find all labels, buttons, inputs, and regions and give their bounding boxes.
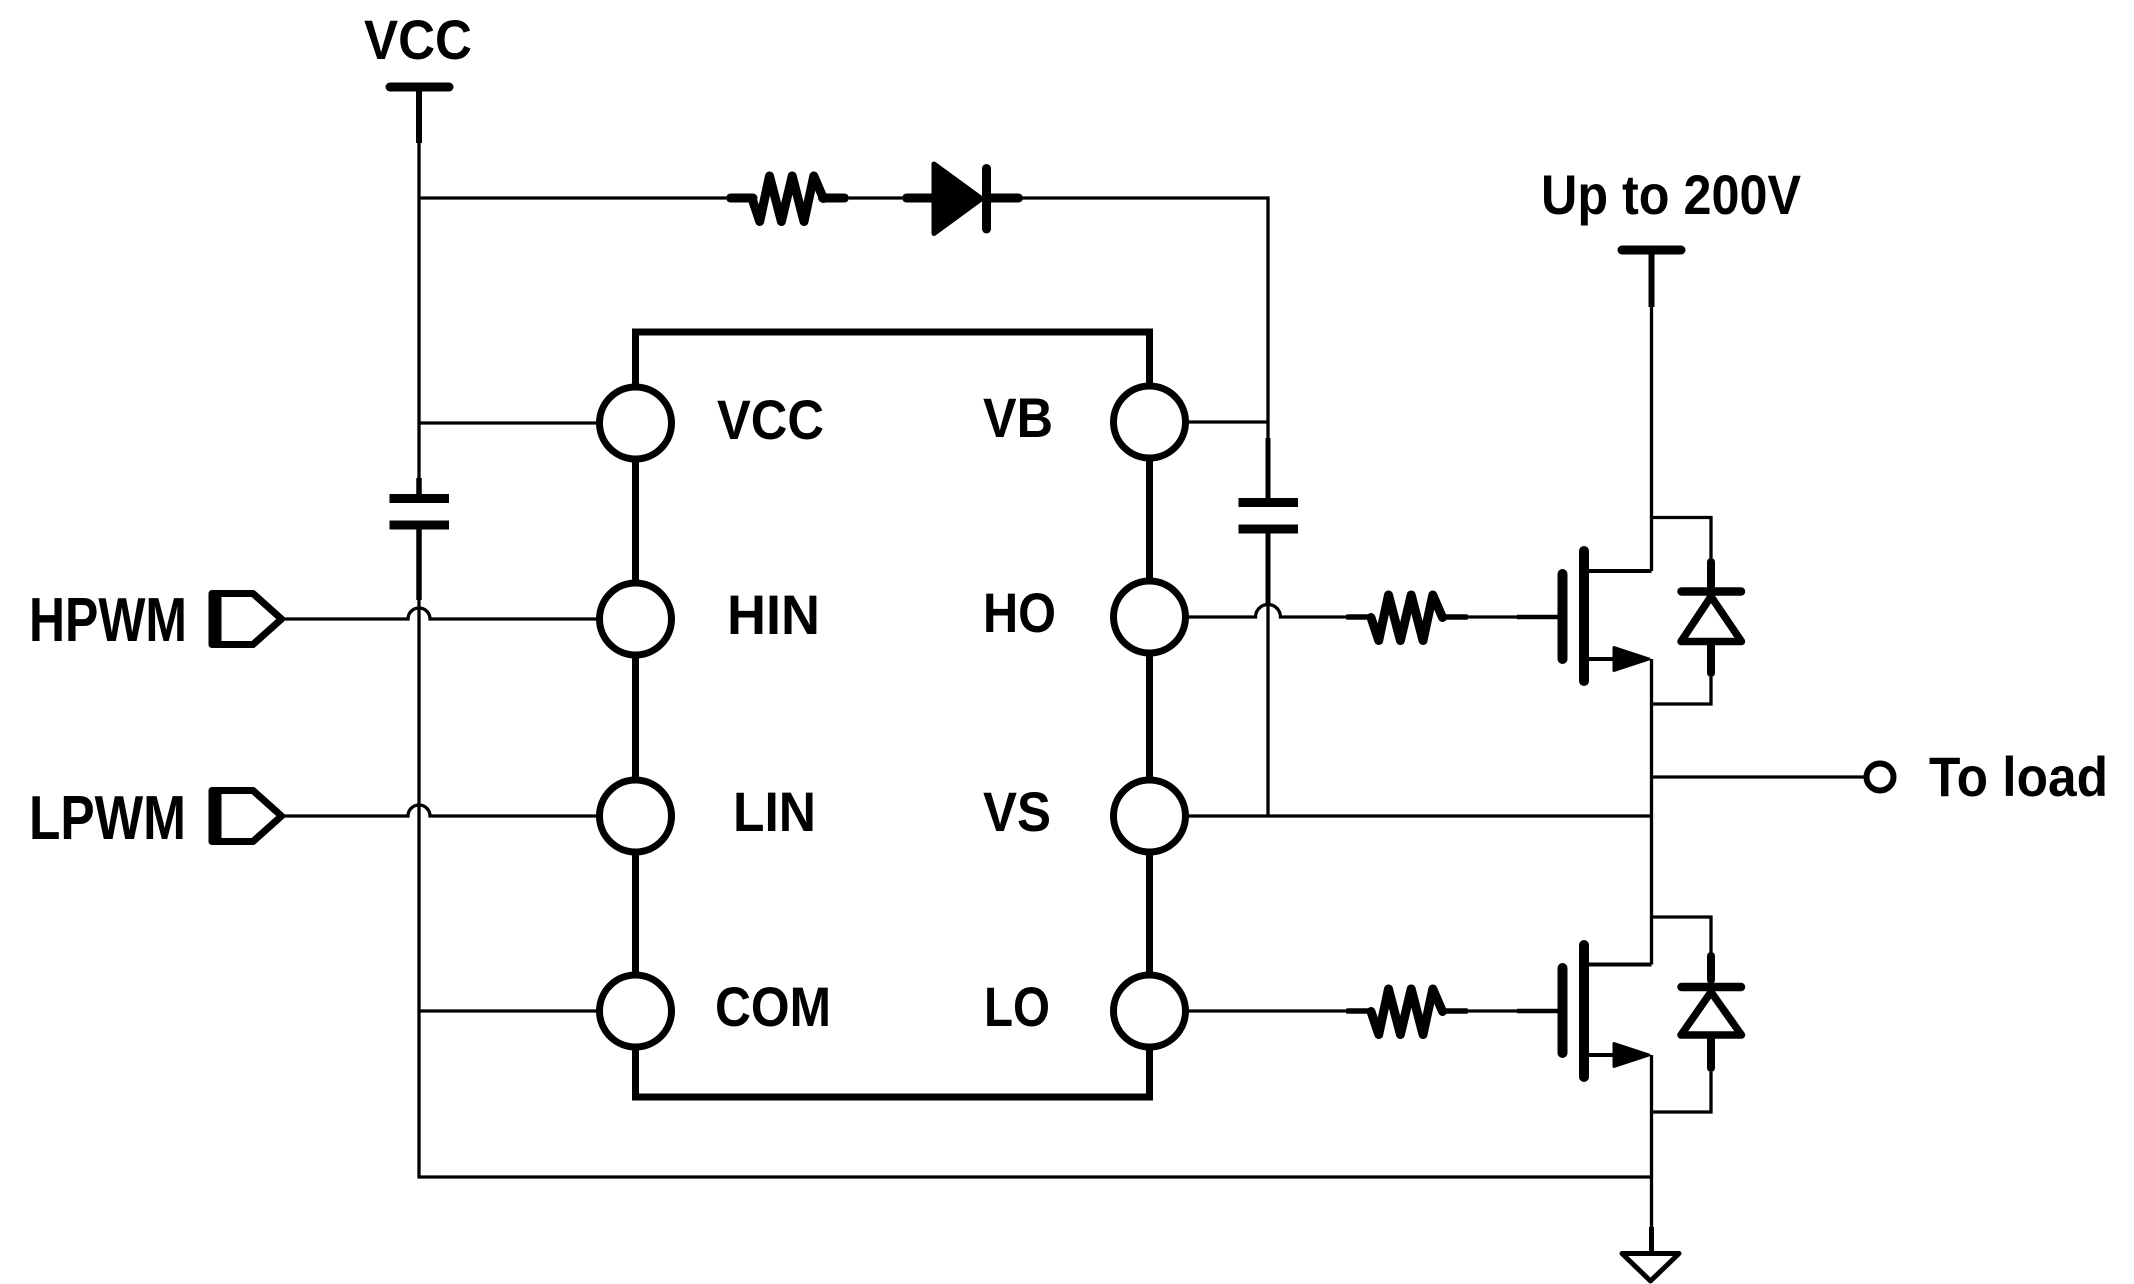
capacitor C1 top lead [416,478,422,496]
resistor R1 left lead [731,194,754,203]
pin VCC circle [600,387,672,459]
pin HO circle [1114,581,1186,653]
svg-text:To load: To load [1929,745,2108,808]
svg-text:VB: VB [983,386,1053,449]
svg-text:LIN: LIN [733,780,816,843]
capacitor C1 bottom lead [416,527,422,600]
wire C2 down to VS net [1266,603,1269,816]
svg-text:VCC: VCC [717,388,824,451]
svg-text:LO: LO [984,975,1050,1038]
svg-text:HIN: HIN [727,583,820,646]
resistor R3 left lead [1348,1008,1371,1014]
wire VCC rail vertical below C1 down to bottom rail [417,598,420,1177]
pin VB circle [1114,386,1186,458]
resistor R2 right lead [1443,614,1467,620]
capacitor C2 bottom lead [1266,531,1271,605]
resistor R1 zigzag [752,176,824,222]
pin HIN circle [600,583,672,655]
diode D3 anode lead [1707,1039,1715,1068]
wire Q2 source down to ground [1650,1055,1653,1227]
wire VB pin to bootstrap node [1187,420,1268,423]
wire switch node to body diode D3 top elbow [1652,917,1712,953]
diode D3 cathode bar [1682,983,1742,992]
svg-text:COM: COM [715,975,831,1038]
resistor R1 right lead [823,194,845,203]
diode D1 triangle [934,164,982,234]
wire VCC rail to VCC pin [419,421,598,424]
wire VS pin to switch node [1187,814,1652,817]
wire HO pin to gate resistor with hop over bootstrap wire [1187,605,1345,618]
diode D3 cathode lead [1707,956,1715,980]
svg-text:HO: HO [983,581,1056,644]
pin VS circle [1114,780,1186,852]
input port HPWM connector [212,594,282,645]
transistor Q1 gate lead [1517,615,1558,620]
capacitor C1 plates [390,494,450,503]
svg-text:VCC: VCC [364,8,472,71]
wire corner down to VB node [1266,198,1269,422]
diode D1 cathode bar [982,169,991,230]
resistor R2 zigzag [1371,595,1443,641]
wire 200V down to Q1 drain [1650,307,1653,571]
transistor Q1 source lead [1584,657,1616,661]
transistor Q2 gate lead [1517,1009,1558,1014]
input port LPWM connector [212,791,282,842]
ground stub [1649,1227,1654,1251]
resistor R2 left lead [1348,614,1371,620]
transistor Q2 drain lead [1584,963,1652,967]
transistor Q2 source lead [1584,1053,1616,1057]
power symbol 200V stub [1649,250,1655,307]
wire HPWM to HIN with hop over VCC rail [282,608,598,619]
diode D2 cathode lead [1707,562,1715,586]
wire D1 to VB corner [1014,196,1270,199]
wire D2 anode to source node elbow [1652,677,1712,704]
resistor R3 right lead [1443,1008,1467,1014]
wire D3 anode to Q2 source elbow [1652,1072,1712,1112]
wire R1 to D1 [849,196,902,199]
pin LIN circle [600,780,672,852]
wire drain node to body diode D2 top elbow [1652,518,1712,560]
node To load terminal circle [1867,764,1894,791]
wire R2 to Q1 gate [1469,615,1517,618]
diode D2 anode lead [1707,645,1715,673]
wire bootstrap node down to C2 [1266,422,1269,440]
svg-text:LPWM: LPWM [29,784,186,853]
wire LPWM to LIN with hop over VCC rail [282,805,598,816]
wire Q1 source down through switch node to Q2 drain [1650,659,1653,965]
wire switch node to load [1652,775,1867,778]
wire VCC rail to COM pin [419,1009,598,1012]
diode D1 cathode lead [987,194,1019,203]
diode D1 anode lead [907,194,935,203]
transistor Q1 channel bar [1579,551,1589,681]
wire VCC rail vertical (x419) [417,143,420,479]
power symbol VCC stub [416,87,422,143]
diode D2 triangle [1681,597,1742,642]
svg-text:Up to 200V: Up to 200V [1541,163,1801,226]
svg-text:HPWM: HPWM [29,586,187,655]
transistor Q2 channel bar [1579,945,1589,1077]
transistor Q2 source arrow [1614,1044,1649,1067]
power symbol 200V bar [1622,246,1681,255]
IC U1 gate-driver outline [636,332,1150,1097]
svg-text:VS: VS [983,780,1051,843]
transistor Q1 gate bar [1558,574,1568,659]
wire bottom ground rail horizontal [417,1175,1651,1178]
capacitor C2 plates [1239,498,1299,507]
diode D3 triangle [1681,992,1742,1035]
pin COM circle [600,975,672,1047]
wire R3 to Q2 gate [1469,1009,1517,1012]
power symbol VCC bar [390,83,449,92]
wire top bootstrap feed from VCC rail [419,196,726,199]
diode D2 cathode bar [1682,587,1742,596]
transistor Q1 drain lead [1584,569,1652,573]
ground triangle [1622,1254,1679,1282]
transistor Q1 source arrow [1614,648,1649,671]
pin LO circle [1114,975,1186,1047]
wire LO pin to gate resistor R3 [1187,1009,1345,1012]
transistor Q2 gate bar [1558,968,1568,1053]
resistor R3 zigzag [1371,989,1443,1035]
capacitor C2 top lead [1266,438,1271,500]
